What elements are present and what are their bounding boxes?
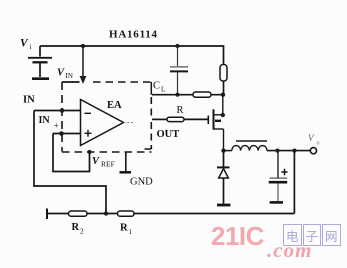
svg-text:C: C [153, 81, 160, 92]
svg-text:V: V [57, 68, 65, 79]
node pin IN [60, 108, 65, 113]
op-amp EA (error amplifier) [81, 100, 124, 146]
svg-text:V: V [92, 156, 100, 167]
wire IN to inverting input [34, 110, 81, 112]
resistor (CL row) [193, 92, 211, 97]
label + polarity [281, 169, 287, 175]
wire top rail [40, 46, 224, 65]
svg-text:EA: EA [107, 100, 122, 111]
capacitor CL [177, 46, 179, 66]
wire VIN to IC corner [62, 81, 80, 83]
wire IN+ to non-inverting input [53, 133, 81, 135]
wire bottom rail [47, 213, 295, 215]
wire GND pin [125, 152, 127, 172]
resistor pull-up (vertical) [220, 65, 227, 82]
node CL wire junction [175, 93, 179, 97]
svg-text:IN: IN [66, 72, 73, 80]
capacitor Cout (electrolytic) [277, 151, 279, 178]
battery B1 (Vi source) [39, 46, 41, 57]
node cap tap [275, 149, 279, 153]
watermark 电子网 [283, 224, 341, 246]
ground GND bar [120, 171, 132, 174]
node drain junction [221, 93, 225, 97]
wire OUT pin [152, 118, 167, 120]
wire VREF feedback loop to IN+ [53, 134, 90, 172]
terminal Vo [310, 148, 316, 154]
node pin IN+ [59, 131, 64, 136]
wire op-amp output stub [124, 122, 135, 124]
svg-text:2: 2 [80, 228, 84, 236]
resistor R (gate) [167, 117, 184, 121]
resistor R2 [69, 211, 88, 216]
svg-text:i: i [30, 43, 32, 51]
ground (battery bottom bar) [32, 77, 49, 80]
svg-text:HA16114: HA16114 [109, 29, 158, 41]
node return tap [292, 149, 296, 153]
IC dashed box HA16114 top edge [93, 81, 151, 83]
svg-text:OUT: OUT [157, 129, 180, 140]
svg-text:IN: IN [23, 95, 35, 106]
node switch node [221, 148, 225, 152]
node divider junction [104, 211, 108, 215]
wire VIN arrow [82, 46, 84, 77]
resistor R1 [118, 211, 135, 216]
svg-text:o: o [317, 141, 320, 147]
IC dashed box left edge [61, 82, 63, 152]
transistor Q1 (power MOSFET) [207, 116, 209, 125]
svg-text:1: 1 [129, 228, 133, 236]
wire CL pin row [152, 94, 223, 96]
wire inductor to output [267, 150, 310, 152]
diode D1 (freewheeling) [223, 151, 225, 167]
terminal left bar [46, 209, 48, 220]
svg-text:R: R [177, 105, 184, 116]
node VIN tap on rail [81, 44, 85, 48]
node VREF [87, 150, 91, 154]
svg-text:R: R [72, 222, 80, 233]
node CL tap on rail [175, 44, 179, 48]
svg-text:L: L [161, 86, 165, 94]
ground (diode bar) [217, 204, 231, 207]
IC dashed box bottom edge [62, 151, 152, 153]
wire return line [293, 151, 295, 214]
inductor L1 [224, 150, 232, 152]
svg-text:V: V [20, 38, 29, 50]
watermark 21IC.com logo [211, 221, 264, 252]
svg-text:GND: GND [130, 177, 153, 188]
ground (cap bar) [270, 201, 283, 204]
wire left feedback: IN down to bottom divider [34, 111, 106, 214]
svg-text:IN: IN [39, 115, 51, 126]
svg-text:R: R [120, 223, 128, 234]
svg-text:+: + [54, 122, 59, 132]
svg-text:REF: REF [101, 160, 115, 169]
IC dashed box right edge [150, 82, 152, 95]
